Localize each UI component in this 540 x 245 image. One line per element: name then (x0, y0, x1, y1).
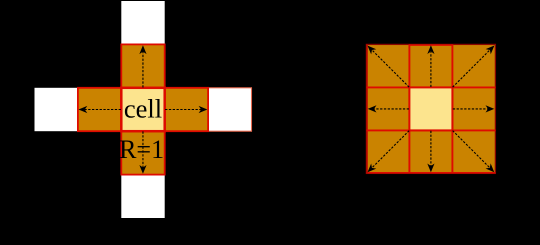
svg-text:cell: cell (124, 94, 162, 124)
right figure: internal vertical grid line 1 (408, 44, 410, 173)
left figure: label "R=1" (119, 135, 164, 164)
left figure: label "cell" (124, 94, 162, 124)
right figure: center yellow cell (409, 87, 452, 130)
right figure: internal vertical grid line 2 (451, 44, 453, 173)
right figure: top middle red segment (409, 44, 452, 46)
left figure: center cell (121, 88, 164, 131)
left figure: bottom orange cell (121, 131, 164, 174)
left figure: left arrow (79, 106, 121, 113)
right figure: internal horizontal grid line 1 (366, 86, 495, 88)
left figure: left white square (35, 88, 78, 131)
left figure: right arrow (165, 106, 207, 113)
right figure: south-west diagonal arrow (365, 131, 409, 175)
left figure: up arrow (139, 45, 146, 87)
right figure: orange 3x3 block (366, 44, 495, 173)
left figure: right white square (208, 88, 251, 131)
left figure: left orange cell (78, 88, 121, 131)
right figure: north-east diagonal arrow (453, 43, 497, 87)
left figure: down arrow (139, 131, 146, 173)
svg-text:R=1: R=1 (119, 135, 164, 164)
left figure: top white square (121, 1, 164, 44)
right figure: internal horizontal grid line 2 (366, 129, 495, 131)
right figure: bottom edge bright red line (366, 172, 495, 174)
left figure: top orange cell (121, 44, 164, 87)
right figure: south-east diagonal arrow (453, 131, 497, 175)
right figure: left edge red line (366, 44, 368, 173)
right figure: up arrow (427, 45, 434, 87)
right figure: down arrow (427, 131, 434, 173)
left figure: right orange cell (165, 88, 208, 131)
right figure: left arrow (368, 105, 409, 112)
right figure: north-west diagonal arrow (365, 43, 409, 87)
right figure: right arrow (453, 105, 495, 112)
left figure: bottom white square (121, 175, 164, 218)
